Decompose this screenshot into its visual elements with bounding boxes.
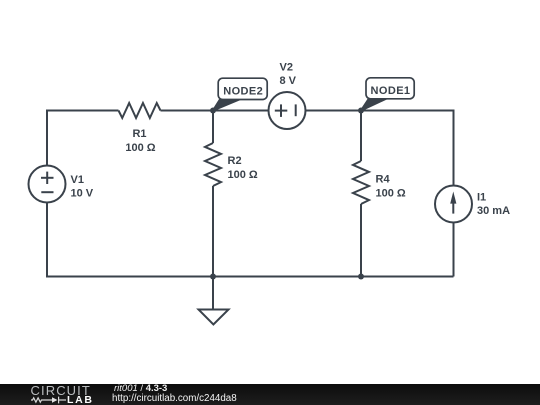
resistor R4 [353,161,369,204]
svg-text:100 Ω: 100 Ω [228,169,258,181]
node NODE1 callout [361,78,414,111]
current source I1 [435,186,472,223]
svg-text:R4: R4 [376,174,391,186]
svg-text:100 Ω: 100 Ω [125,142,155,154]
wire ground stem [212,277,214,310]
voltage source V1 labels [71,174,94,200]
svg-text:V1: V1 [71,174,84,186]
wire top rail: NODE1 to top-right corner [361,110,454,112]
CircuitLab logo resistor-diode glyph [31,396,67,405]
wire right vertical bottom (I1 to bottom rail) [453,223,455,277]
ground [199,310,229,325]
wire top rail: V2 to node NODE1 [306,110,362,112]
wire R2 branch bottom [212,186,214,277]
node NODE2 junction dot [210,108,216,114]
resistor R1 labels [125,128,155,154]
node NODE1 junction dot [358,108,364,114]
wire top rail: corner to R1 [46,110,119,112]
wire top rail: NODE2 to V2 [213,110,269,112]
svg-text:8 V: 8 V [280,75,297,87]
svg-text:NODE1: NODE1 [371,85,411,97]
junction dot bottom R4 [358,274,364,280]
svg-text:10 V: 10 V [71,188,94,200]
resistor R1 [119,103,161,118]
wire left vertical top (V1 to top rail) [46,111,48,167]
footer bar [0,384,540,405]
node NODE2 callout [213,78,267,110]
svg-text:V2: V2 [280,62,293,74]
footer url text [112,394,237,403]
svg-text:R2: R2 [228,155,242,167]
wire R4 branch top [360,111,362,162]
svg-text:30 mA: 30 mA [477,205,510,217]
wire right vertical top (corner to I1) [453,110,455,186]
svg-text:100 Ω: 100 Ω [376,188,406,200]
CircuitLab logo LAB [67,396,94,404]
current source I1 labels [477,192,510,218]
resistor R2 labels [228,155,258,181]
wire bottom rail [46,276,454,278]
voltage source V2 labels [280,62,297,88]
svg-text:I1: I1 [477,192,486,204]
wire top rail: R1 to node NODE2 [161,110,214,112]
footer title text [114,384,167,393]
svg-text:R1: R1 [132,128,146,140]
wire R2 branch top [212,111,214,144]
wire R4 branch bottom [360,204,362,277]
wire left vertical bottom (V1 to bottom rail) [46,203,48,277]
CircuitLab logo wordmark [31,385,91,396]
resistor R2 [205,143,221,186]
voltage source V2 [269,92,306,129]
voltage source V1 [29,166,66,203]
svg-text:NODE2: NODE2 [223,86,263,98]
junction dot bottom R2 [210,274,216,280]
resistor R4 labels [376,174,406,200]
